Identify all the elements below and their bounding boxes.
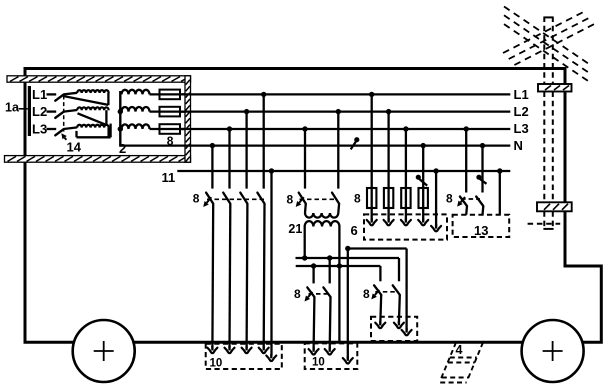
svg-text:8: 8 xyxy=(193,191,200,205)
svg-text:8: 8 xyxy=(167,134,174,148)
svg-text:2: 2 xyxy=(119,141,126,156)
svg-text:11: 11 xyxy=(162,170,176,185)
svg-text:L1: L1 xyxy=(32,87,47,102)
svg-text:1a: 1a xyxy=(5,101,20,115)
svg-text:8: 8 xyxy=(294,287,301,301)
svg-text:L1: L1 xyxy=(514,87,529,102)
svg-text:L2: L2 xyxy=(514,104,529,119)
svg-text:8: 8 xyxy=(354,192,361,206)
svg-text:10: 10 xyxy=(210,357,223,369)
svg-text:L3: L3 xyxy=(32,121,47,136)
svg-text:N: N xyxy=(514,138,523,153)
svg-text:21: 21 xyxy=(288,222,302,236)
svg-text:6: 6 xyxy=(351,223,358,238)
svg-text:13: 13 xyxy=(474,223,488,238)
svg-text:8: 8 xyxy=(363,287,370,301)
svg-text:14: 14 xyxy=(67,140,82,155)
svg-text:8: 8 xyxy=(287,192,294,206)
svg-text:4: 4 xyxy=(456,343,463,357)
svg-text:L3: L3 xyxy=(514,121,529,136)
svg-text:8: 8 xyxy=(446,191,453,205)
svg-text:L2: L2 xyxy=(32,104,47,119)
svg-text:10: 10 xyxy=(312,357,325,369)
